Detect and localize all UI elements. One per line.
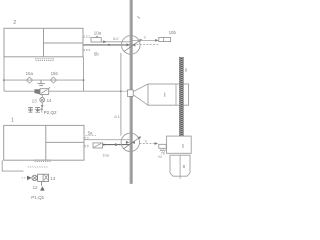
pump 6.1 circle	[121, 133, 139, 151]
stub to coupling	[121, 90, 128, 92]
svg-text:5b: 5b	[94, 52, 99, 57]
svg-text:15b: 15b	[51, 71, 59, 76]
svg-text:5: 5	[182, 144, 185, 149]
pump 6.1 upper feed line	[84, 139, 130, 141]
pump 6.1 delivery dashed	[140, 143, 155, 145]
arrow on 10a line	[103, 40, 106, 43]
node left	[3, 79, 5, 81]
svg-text:13: 13	[32, 99, 37, 104]
svg-text:9: 9	[145, 139, 147, 143]
svg-text:15a: 15a	[26, 71, 34, 76]
injection barrel body	[148, 84, 189, 105]
pump inlet arrow	[41, 181, 43, 185]
check valve 15a	[26, 77, 32, 83]
svg-text:8: 8	[183, 164, 186, 169]
P2,Q2	[41, 108, 43, 113]
svg-text:10b: 10b	[169, 30, 177, 35]
pump suction line dark	[84, 44, 131, 46]
mount hatching under cylinder 1	[28, 160, 51, 168]
drive shaft 11	[129, 0, 133, 184]
barrel label tick	[164, 93, 166, 97]
pilot circle 13	[41, 94, 43, 97]
load text 负载	[28, 107, 40, 112]
inter-pump pipe	[120, 53, 122, 136]
tank symbol	[37, 80, 44, 85]
svg-text:10a: 10a	[94, 30, 102, 35]
valve 7b	[159, 144, 166, 148]
pump 6.2 variable arrow	[124, 40, 140, 51]
check valve 15b	[50, 77, 56, 83]
wire: right drop from cylinder 2	[83, 57, 85, 91]
cylinder 2 piston line	[43, 28, 45, 57]
svg-text:9: 9	[144, 36, 146, 40]
nut housing box 5	[167, 136, 192, 153]
svg-text:1: 1	[11, 118, 14, 124]
cylinder 1 rod chamber divider	[46, 141, 84, 143]
cylinder 1 break marks right	[84, 138, 89, 139]
svg-text:2: 2	[13, 20, 16, 26]
pump 6.1 port triangles	[126, 141, 129, 144]
label 11 tick	[138, 16, 140, 18]
wire: left drop from cylinder 2	[3, 57, 5, 91]
motor shaft stub	[179, 176, 181, 179]
svg-text:P1,Q1: P1,Q1	[31, 195, 44, 200]
cylinder 1 body	[4, 125, 84, 160]
injection barrel cone	[133, 84, 148, 105]
svg-text:10a: 10a	[102, 152, 109, 157]
cylinder 1 piston line	[45, 125, 47, 160]
hose break marks upper	[83, 36, 90, 37]
drain dashed line	[137, 43, 159, 45]
valve 13 body	[38, 174, 49, 181]
valve 10a	[91, 38, 101, 42]
coupling block	[127, 90, 133, 97]
node right	[83, 79, 85, 81]
pump 10a feed line	[101, 41, 130, 43]
svg-text:5a: 5a	[88, 131, 93, 136]
hose break marks lower	[83, 49, 90, 50]
pump 6.1 variable arrow	[123, 138, 139, 149]
valve 13 pilot circle	[32, 175, 37, 180]
motor box 8	[170, 155, 190, 176]
cylinder 2 rod chamber divider	[44, 42, 84, 44]
cylinder 2 body	[4, 28, 83, 57]
ball screw rod	[179, 57, 184, 136]
valve 14 body	[34, 87, 50, 94]
svg-text:6.1: 6.1	[114, 114, 119, 119]
wire: cylinder 1 left drop	[2, 160, 23, 171]
pump 6.2 delivery line	[132, 39, 157, 41]
pump 6.1 lower line dark	[103, 144, 130, 146]
valve 10b	[159, 37, 171, 41]
dashed stub 5a	[86, 134, 96, 136]
wire: make-up line with check valves	[4, 79, 84, 81]
svg-text:P2,Q2: P2,Q2	[44, 110, 57, 115]
pilot dashes valve 13	[22, 177, 27, 179]
wire: lower transfer line	[4, 90, 121, 92]
pump 6.2 circle	[122, 36, 141, 55]
svg-text:6.2: 6.2	[113, 36, 118, 41]
svg-text:14: 14	[47, 98, 52, 103]
svg-text:M: M	[158, 154, 161, 159]
node on suction line	[108, 44, 110, 46]
load arrow	[41, 102, 43, 105]
valve 13 solenoid arrow	[27, 176, 32, 181]
svg-text:12: 12	[33, 185, 38, 190]
valve 12a body	[93, 143, 103, 148]
pump 6.2 port triangles	[126, 43, 129, 46]
mount hatching under cylinder 2	[35, 59, 55, 61]
node transfer junction	[120, 90, 122, 92]
svg-text:13: 13	[50, 176, 55, 181]
